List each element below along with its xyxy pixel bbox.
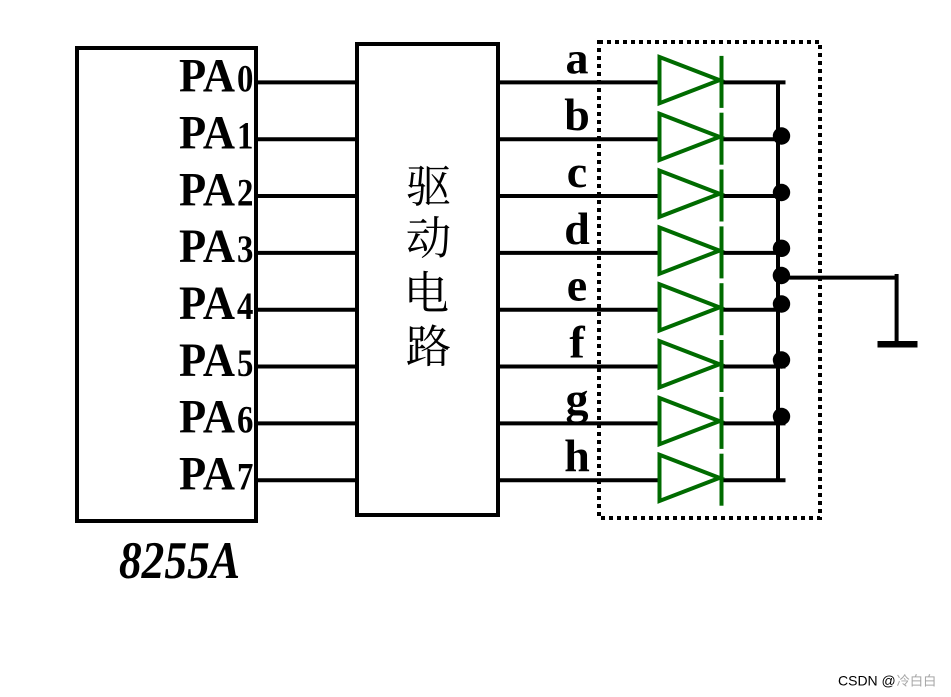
svg-text:h: h bbox=[564, 430, 590, 481]
LED diode a bbox=[660, 56, 722, 108]
wire PA4 to driver bbox=[256, 308, 359, 312]
svg-text:0: 0 bbox=[237, 58, 253, 101]
wire driver to diode d anode bbox=[498, 251, 661, 255]
wire driver to diode e anode bbox=[498, 308, 661, 312]
junction dot row c bbox=[773, 184, 790, 201]
wire driver to diode a anode bbox=[498, 80, 661, 84]
svg-text:b: b bbox=[564, 89, 590, 140]
LED diode f bbox=[660, 340, 722, 392]
svg-text:d: d bbox=[564, 203, 590, 254]
LED diode h bbox=[660, 454, 722, 506]
driver box 驱动电路 bbox=[357, 44, 498, 515]
svg-text:PA: PA bbox=[179, 391, 235, 444]
wire PA3 to driver bbox=[256, 251, 359, 255]
watermark char 冷 bbox=[897, 674, 909, 686]
svg-text:e: e bbox=[567, 260, 587, 311]
svg-text:PA: PA bbox=[179, 277, 235, 330]
svg-text:a: a bbox=[566, 32, 589, 83]
svg-text:f: f bbox=[569, 317, 585, 368]
svg-text:2: 2 bbox=[237, 171, 253, 214]
wire PA6 to driver bbox=[256, 421, 359, 425]
LED display dotted enclosure bbox=[599, 42, 820, 518]
LED diode c bbox=[660, 170, 722, 222]
svg-text:PA: PA bbox=[179, 220, 235, 273]
IC box 8255A bbox=[77, 48, 256, 521]
svg-text:g: g bbox=[566, 373, 589, 424]
svg-text:PA: PA bbox=[179, 334, 235, 387]
driver box text char 动 bbox=[407, 216, 449, 258]
wire driver to diode g anode bbox=[498, 421, 661, 425]
wire diode b cathode to common bus bbox=[722, 137, 786, 141]
wire PA1 to driver bbox=[256, 137, 359, 141]
driver box text char 路 bbox=[407, 324, 450, 366]
watermark char 白 bbox=[912, 674, 922, 686]
wire diode a cathode to common bus bbox=[722, 80, 786, 84]
junction dot row d bbox=[773, 240, 790, 257]
svg-text:8255A: 8255A bbox=[119, 532, 240, 590]
wire driver to diode f anode bbox=[498, 365, 661, 369]
wire driver to diode c anode bbox=[498, 194, 661, 198]
wire driver to diode h anode bbox=[498, 478, 661, 482]
junction dot ground branch bbox=[773, 267, 790, 284]
ground symbol bbox=[878, 341, 918, 348]
junction dot row e bbox=[773, 295, 790, 312]
LED diode b bbox=[660, 113, 722, 165]
svg-text:c: c bbox=[567, 146, 587, 197]
svg-text:3: 3 bbox=[237, 228, 253, 271]
wire diode h cathode to common bus bbox=[722, 478, 786, 482]
driver box text char 驱 bbox=[408, 166, 450, 206]
svg-text:6: 6 bbox=[237, 399, 253, 442]
svg-text:PA: PA bbox=[179, 107, 235, 160]
svg-text:CSDN @: CSDN @ bbox=[838, 673, 896, 689]
wire PA7 to driver bbox=[256, 478, 359, 482]
watermark char 白 bbox=[925, 674, 935, 686]
wire diode c cathode to common bus bbox=[722, 194, 786, 198]
wire diode f cathode to common bus bbox=[722, 365, 786, 369]
LED diode g bbox=[660, 397, 722, 449]
svg-text:5: 5 bbox=[237, 342, 253, 385]
svg-text:PA: PA bbox=[179, 50, 235, 103]
svg-text:PA: PA bbox=[179, 448, 235, 501]
junction dot row b bbox=[773, 127, 790, 144]
junction dot row f bbox=[773, 351, 790, 368]
junction dot row g bbox=[773, 408, 790, 425]
LED diode d bbox=[660, 226, 722, 278]
svg-text:PA: PA bbox=[179, 163, 235, 216]
wire PA2 to driver bbox=[256, 194, 359, 198]
common cathode bus wire bbox=[776, 82, 780, 480]
wire diode g cathode to common bus bbox=[722, 421, 786, 425]
LED diode e bbox=[660, 283, 722, 335]
wire PA5 to driver bbox=[256, 365, 359, 369]
svg-text:7: 7 bbox=[237, 456, 253, 499]
wire bus to ground bbox=[776, 274, 897, 344]
wire PA0 to driver bbox=[256, 80, 359, 84]
wire diode d cathode to common bus bbox=[722, 251, 786, 255]
wire diode e cathode to common bus bbox=[722, 308, 786, 312]
driver box text char 电 bbox=[409, 271, 447, 312]
svg-text:1: 1 bbox=[237, 115, 253, 158]
svg-text:4: 4 bbox=[237, 285, 253, 328]
wire driver to diode b anode bbox=[498, 137, 661, 141]
